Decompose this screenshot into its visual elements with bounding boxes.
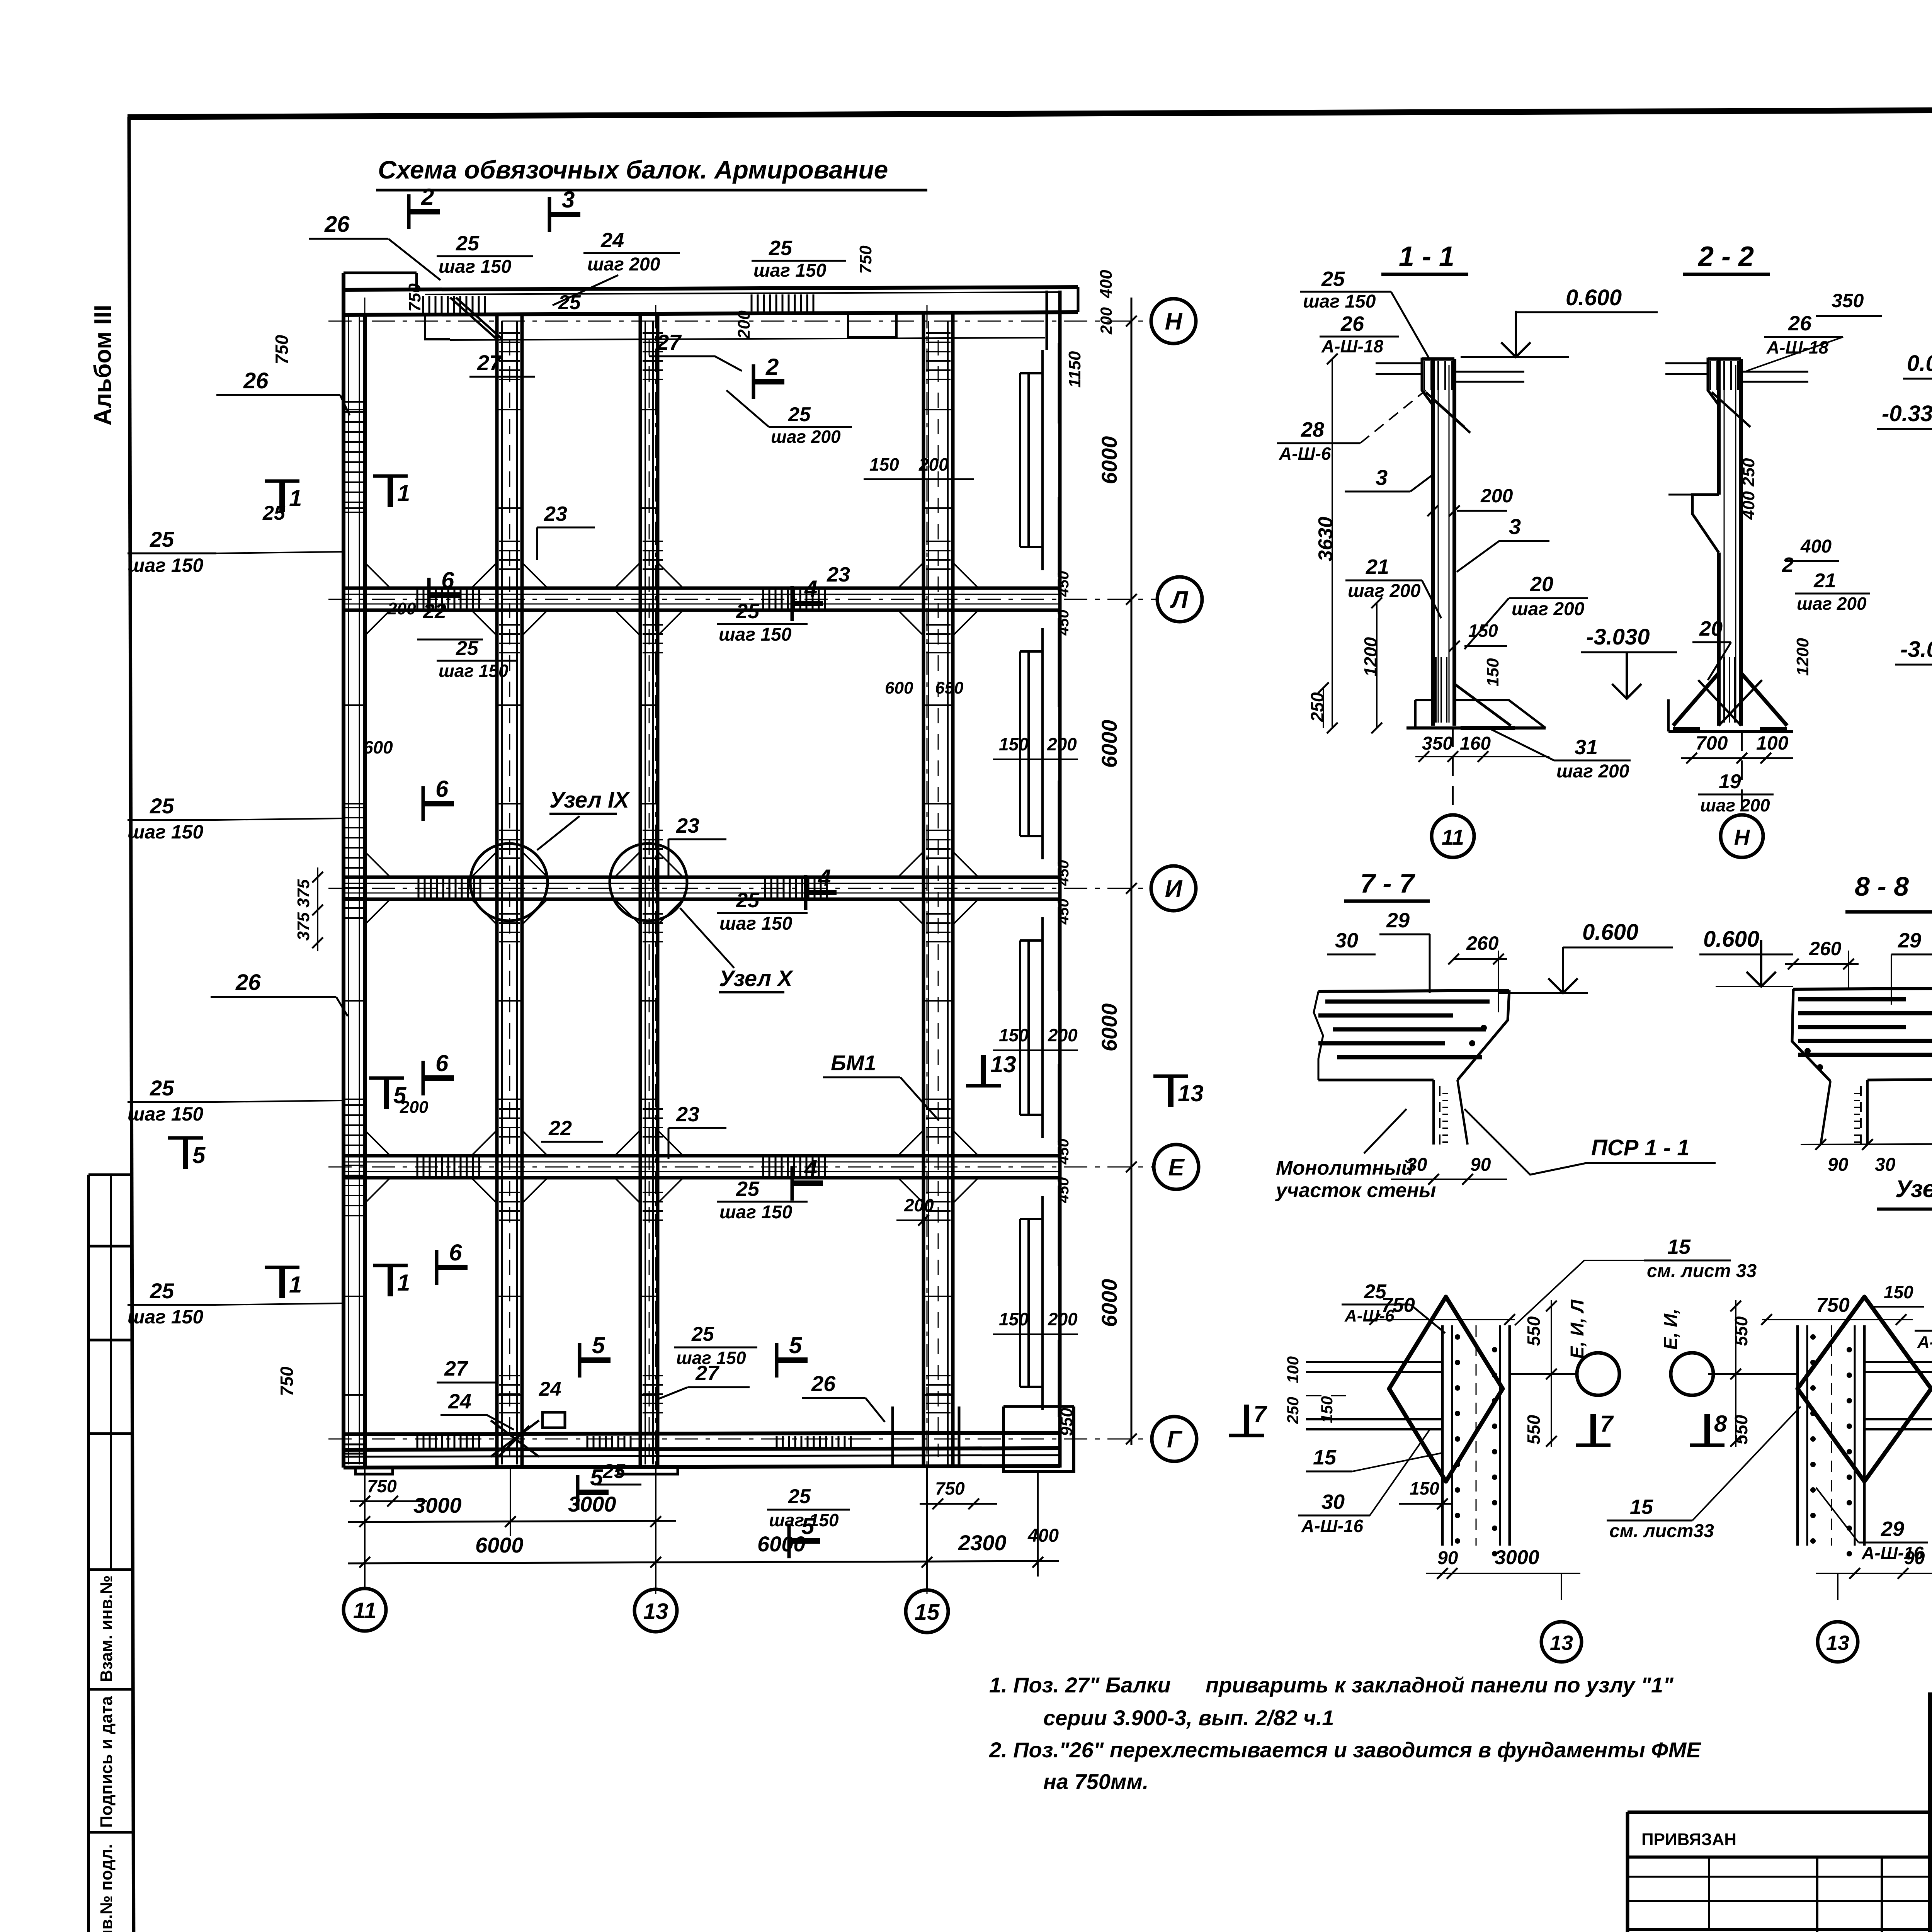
- svg-text:260: 260: [1466, 932, 1499, 954]
- svg-text:11: 11: [353, 1598, 376, 1623]
- svg-text:3630: 3630: [1315, 517, 1337, 561]
- section 2-2 axis circle N: [1741, 731, 1743, 815]
- svg-text:6000: 6000: [1097, 720, 1121, 768]
- left wall along axis 11: [342, 273, 345, 1468]
- strip mid bottom X brace: [491, 1420, 539, 1457]
- svg-text:шаг 200: шаг 200: [587, 254, 660, 275]
- svg-text:200: 200: [1048, 1025, 1078, 1045]
- row N parapet step top-left: [344, 272, 417, 274]
- section 8-8 rebar lines: [1798, 997, 1906, 1002]
- svg-text:7: 7: [1600, 1411, 1614, 1437]
- svg-text:7 - 7: 7 - 7: [1360, 868, 1415, 898]
- svg-text:6000: 6000: [757, 1532, 806, 1556]
- svg-text:ИНВ. №: ИНВ. №: [1638, 1930, 1704, 1932]
- svg-text:шаг 150: шаг 150: [439, 257, 512, 277]
- row G hatch left: [417, 1436, 479, 1448]
- wall strip 15: [922, 314, 925, 1468]
- svg-text:2 - 2: 2 - 2: [1697, 241, 1754, 272]
- svg-text:шаг 200: шаг 200: [1700, 795, 1770, 815]
- svg-text:шаг 200: шаг 200: [1348, 581, 1421, 601]
- section 8-8 corbel slab: [1793, 988, 1932, 989]
- strip mid hatch bottom: [499, 1376, 520, 1413]
- svg-text:Схема обвязочных балок. Армир: Схема обвязочных балок. Армирование: [378, 155, 888, 184]
- beam row E: [344, 1154, 1060, 1158]
- svg-text:150: 150: [1468, 621, 1498, 641]
- bottom wall buttresses: [355, 1468, 393, 1474]
- strip mid hatch below axis y3020: [499, 1192, 520, 1220]
- svg-text:27: 27: [695, 1362, 720, 1385]
- svg-text:участок стены: участок стены: [1275, 1179, 1436, 1202]
- uzel X beam lines: [1864, 1361, 1932, 1363]
- uzel IX diamond loop: [1389, 1297, 1503, 1481]
- svg-text:1: 1: [397, 480, 410, 506]
- svg-text:3: 3: [1376, 465, 1388, 490]
- svg-text:13: 13: [1826, 1631, 1849, 1655]
- svg-text:27: 27: [656, 330, 682, 354]
- uzel X circle on plan: [610, 844, 687, 921]
- svg-text:750: 750: [277, 1366, 297, 1396]
- svg-text:450: 450: [1055, 1139, 1072, 1165]
- svg-text:А-Ш-6: А-Ш-6: [1344, 1306, 1395, 1325]
- svg-text:6: 6: [435, 776, 449, 802]
- svg-text:25: 25: [691, 1323, 714, 1345]
- svg-text:200: 200: [400, 1098, 429, 1117]
- strip 15 hatch top: [926, 333, 951, 379]
- section 8-8 neck: [1821, 1081, 1830, 1145]
- strip 13 hatch above axis y1551: [643, 541, 663, 569]
- section 2-2 wall stem: [1717, 359, 1721, 495]
- svg-text:2: 2: [1782, 553, 1794, 577]
- svg-text:24: 24: [448, 1390, 471, 1413]
- svg-text:200: 200: [387, 599, 416, 618]
- svg-text:450: 450: [1055, 1177, 1072, 1204]
- strip mid hatch top: [499, 333, 520, 379]
- strip 15 hatch above axis y3020: [926, 1109, 951, 1137]
- bottom axis circle 11: [344, 1588, 386, 1631]
- svg-text:24: 24: [600, 229, 624, 252]
- svg-text:шаг 200: шаг 200: [1556, 761, 1629, 782]
- svg-text:шаг 200: шаг 200: [1512, 599, 1585, 619]
- svg-text:550: 550: [1731, 1316, 1751, 1346]
- svg-text:24: 24: [539, 1378, 561, 1400]
- svg-text:3: 3: [562, 187, 575, 213]
- wall strip mid between 11 and 13: [495, 314, 499, 1468]
- svg-text:250: 250: [1307, 692, 1327, 722]
- svg-text:3000: 3000: [413, 1493, 462, 1517]
- row E hatch right: [763, 1157, 825, 1176]
- section 7-7 rebar lines: [1325, 1000, 1490, 1004]
- svg-text:260: 260: [1809, 938, 1842, 959]
- svg-text:шаг 150: шаг 150: [719, 1202, 793, 1223]
- svg-text:приварить к закладной панел: приварить к закладной панели по узлу "1": [1206, 1673, 1674, 1697]
- svg-text:26: 26: [235, 970, 261, 995]
- svg-text:0.600: 0.600: [1703, 927, 1759, 952]
- axis line I: [328, 888, 1151, 889]
- svg-text:25: 25: [262, 502, 286, 524]
- svg-text:шаг 150: шаг 150: [128, 1103, 203, 1125]
- svg-text:950: 950: [1057, 1408, 1076, 1436]
- svg-text:серии 3.900-3, вып. 2/82 ч.1: серии 3.900-3, вып. 2/82 ч.1: [1043, 1706, 1334, 1730]
- svg-text:Узел X: Узел X: [719, 966, 794, 991]
- svg-text:А-Ш-18: А-Ш-18: [1321, 336, 1383, 356]
- svg-text:23: 23: [676, 1103, 699, 1126]
- strip 13 hatch above axis y2299: [643, 830, 663, 858]
- section 1-1 foot: [1415, 699, 1433, 701]
- svg-text:150: 150: [1884, 1282, 1913, 1302]
- svg-text:350: 350: [1832, 290, 1864, 311]
- section 1-1 bottom dims: [1415, 756, 1549, 757]
- svg-text:150: 150: [999, 734, 1029, 754]
- svg-text:А-Ш-18: А-Ш-18: [1766, 337, 1828, 357]
- sheet left border: [129, 117, 134, 1932]
- svg-text:200: 200: [1097, 307, 1115, 335]
- svg-text:А-Ш-16: А-Ш-16: [1917, 1333, 1932, 1352]
- svg-text:1: 1: [289, 485, 302, 511]
- svg-text:450: 450: [1055, 610, 1072, 636]
- uzel IX axis circle: [1510, 1373, 1576, 1375]
- extension lines to bottom circles: [364, 1468, 366, 1588]
- svg-text:750: 750: [367, 1476, 397, 1496]
- section 2-2 foot X spread: [1673, 673, 1719, 726]
- svg-text:450: 450: [1055, 899, 1072, 925]
- row N hatch right: [752, 294, 813, 311]
- title block outer: [1930, 1695, 1932, 1932]
- vertical axis 11: [364, 298, 366, 1594]
- strip 13 hatch top: [643, 333, 663, 379]
- svg-text:25: 25: [150, 527, 174, 551]
- interior labels: [429, 592, 460, 598]
- svg-text:Н: Н: [1734, 825, 1750, 849]
- svg-text:150: 150: [1410, 1478, 1439, 1498]
- axis line G: [328, 1439, 1151, 1440]
- strip 13 hatch above axis y3020: [643, 1109, 663, 1137]
- svg-text:550: 550: [1524, 1316, 1544, 1346]
- svg-text:5: 5: [592, 1332, 605, 1358]
- section 1-1 wall stem: [1431, 359, 1435, 726]
- svg-text:25: 25: [736, 600, 760, 623]
- svg-text:2300: 2300: [958, 1531, 1007, 1555]
- axis line N: [328, 321, 1151, 322]
- svg-text:шаг 150: шаг 150: [128, 554, 203, 576]
- svg-text:1150: 1150: [1065, 351, 1084, 388]
- svg-text:-0.330: -0.330: [1882, 401, 1932, 426]
- svg-text:Узел IX: Узел IX: [549, 787, 630, 813]
- strip mid hatch below axis y2299: [499, 914, 520, 942]
- svg-text:23: 23: [676, 814, 699, 837]
- beam row I: [344, 876, 1060, 879]
- svg-text:750: 750: [856, 245, 875, 274]
- uzel IX dots: [1455, 1334, 1460, 1340]
- svg-text:25: 25: [150, 1279, 174, 1303]
- left stamp column frame: [87, 1175, 90, 1932]
- svg-text:25: 25: [736, 889, 760, 912]
- strip 15 hatch above axis y2299: [926, 830, 951, 858]
- svg-text:15: 15: [915, 1600, 940, 1625]
- svg-text:90: 90: [1470, 1155, 1491, 1175]
- svg-text:25: 25: [1364, 1281, 1387, 1303]
- svg-text:26: 26: [1788, 312, 1812, 335]
- section 7-7 taper dots: [1469, 1040, 1475, 1046]
- svg-text:шаг 200: шаг 200: [1797, 594, 1867, 614]
- section 2-2 head: [1708, 357, 1741, 361]
- svg-text:6000: 6000: [1097, 1003, 1121, 1052]
- svg-text:750: 750: [935, 1478, 965, 1498]
- svg-text:30: 30: [1321, 1490, 1345, 1514]
- svg-text:шаг 150: шаг 150: [439, 661, 509, 681]
- svg-text:30: 30: [1335, 929, 1358, 952]
- svg-text:21: 21: [1366, 555, 1389, 578]
- svg-text:26: 26: [1340, 312, 1364, 335]
- svg-text:650: 650: [935, 679, 964, 697]
- section 8-8 bottom dim line: [1801, 1144, 1932, 1145]
- svg-text:200: 200: [904, 1195, 934, 1215]
- svg-text:Узел X: Узел X: [1895, 1176, 1932, 1202]
- svg-text:6000: 6000: [1097, 436, 1121, 485]
- row G hatch mid: [587, 1436, 631, 1448]
- uzel IX bottom circle 13: [1561, 1573, 1562, 1600]
- svg-text:550: 550: [1731, 1415, 1751, 1444]
- section 1-1 head diagonal: [1426, 392, 1464, 427]
- row L hatch left: [417, 589, 479, 609]
- svg-text:200: 200: [1048, 1309, 1078, 1329]
- svg-text:700: 700: [1696, 732, 1728, 754]
- strip 15 hatch below axis y2299: [926, 914, 951, 942]
- left wall rebar hatch 3: [345, 1105, 363, 1216]
- svg-text:2. Поз."26" перехлестывается: 2. Поз."26" перехлестывается и заводится…: [989, 1738, 1701, 1762]
- svg-text:400: 400: [1097, 270, 1116, 299]
- svg-text:200: 200: [735, 310, 753, 339]
- svg-text:30: 30: [1875, 1155, 1896, 1175]
- strip 15 hatch above axis y1551: [926, 541, 951, 569]
- uzel X bottom circle 13: [1837, 1573, 1838, 1600]
- svg-text:13: 13: [1550, 1631, 1573, 1655]
- svg-text:150: 150: [1483, 658, 1502, 687]
- svg-text:5: 5: [192, 1142, 206, 1168]
- wall strip joint ticks: [344, 410, 953, 1395]
- svg-text:1200: 1200: [1361, 637, 1381, 677]
- svg-text:0.000: 0.000: [1907, 351, 1932, 376]
- svg-text:160: 160: [1460, 733, 1491, 754]
- svg-text:см. лист 33: см. лист 33: [1647, 1261, 1757, 1281]
- section 7-7 corbel slab: [1318, 990, 1509, 992]
- uzel X detail wall strip: [1796, 1325, 1799, 1546]
- svg-text:Л: Л: [1170, 587, 1189, 613]
- svg-text:шаг 150: шаг 150: [128, 821, 203, 843]
- left wall rebar hatch 2: [345, 808, 363, 918]
- embedded plate square: [543, 1412, 565, 1428]
- svg-text:25: 25: [602, 1460, 626, 1483]
- svg-text:4: 4: [804, 1155, 817, 1181]
- svg-text:28: 28: [1301, 418, 1324, 441]
- title block signature rows: [1930, 1715, 1932, 1718]
- svg-text:Е, И, Л: Е, И, Л: [1567, 1299, 1588, 1359]
- svg-text:8: 8: [1714, 1411, 1727, 1437]
- uzel IX beam lines: [1306, 1361, 1442, 1363]
- row N hatch left: [423, 296, 485, 314]
- sheet top border: [128, 107, 1932, 117]
- svg-text:450: 450: [1055, 571, 1072, 597]
- svg-text:23: 23: [544, 502, 567, 526]
- svg-text:20: 20: [1530, 573, 1553, 596]
- right vertical dimension line 6000s: [1131, 298, 1133, 1445]
- row L hatch right: [763, 589, 825, 609]
- attachment table: [1628, 1811, 1930, 1814]
- uzel IX detail wall strip: [1441, 1325, 1444, 1546]
- strip mid hatch above axis y3020: [499, 1109, 520, 1137]
- strip 13 hatch below axis y2299: [643, 914, 663, 942]
- strip mid hatch above axis y1551: [499, 541, 520, 569]
- svg-text:29: 29: [1386, 909, 1410, 932]
- svg-text:200: 200: [1047, 734, 1077, 754]
- corner chamfers: [365, 563, 978, 1203]
- bottom axis circle 13: [634, 1589, 677, 1632]
- svg-text:8 - 8: 8 - 8: [1855, 871, 1909, 901]
- svg-text:150: 150: [1318, 1396, 1336, 1423]
- strip 13 hatch below axis y3020: [643, 1192, 663, 1220]
- svg-text:Е: Е: [1168, 1154, 1185, 1181]
- axis line E: [328, 1167, 1153, 1168]
- strip mid hatch above axis y2299: [499, 830, 520, 858]
- svg-text:Е, И,: Е, И,: [1661, 1309, 1681, 1350]
- right chamber walls per bay: [1019, 373, 1021, 547]
- svg-text:19: 19: [1719, 770, 1741, 793]
- svg-text:на 750мм.: на 750мм.: [1043, 1769, 1148, 1794]
- svg-text:22: 22: [423, 600, 446, 623]
- svg-text:29: 29: [1898, 929, 1921, 952]
- svg-text:13: 13: [643, 1599, 668, 1624]
- svg-text:шаг 150: шаг 150: [1303, 291, 1376, 312]
- wall strip 13: [639, 314, 642, 1468]
- svg-text:1: 1: [397, 1270, 410, 1296]
- svg-text:0.600: 0.600: [1566, 285, 1622, 310]
- svg-text:90: 90: [1904, 1548, 1925, 1568]
- svg-text:600: 600: [885, 679, 913, 697]
- svg-text:6: 6: [449, 1240, 462, 1265]
- beam row L: [344, 587, 1060, 590]
- svg-text:3: 3: [1509, 514, 1521, 539]
- svg-text:Инв.№ подл.: Инв.№ подл.: [97, 1844, 116, 1932]
- svg-text:Монолитный: Монолитный: [1276, 1157, 1413, 1179]
- svg-text:-3.030: -3.030: [1586, 624, 1650, 650]
- svg-text:ПРИВЯЗАН: ПРИВЯЗАН: [1641, 1830, 1736, 1849]
- svg-text:4: 4: [818, 865, 831, 891]
- axis circle G: [1152, 1417, 1197, 1461]
- svg-text:-3.030: -3.030: [1900, 637, 1932, 662]
- bottom axis circle 15: [906, 1590, 948, 1633]
- svg-text:100: 100: [1284, 1356, 1302, 1383]
- bottom dimension line 3000+3000: [348, 1521, 676, 1522]
- svg-text:6000: 6000: [1097, 1279, 1121, 1327]
- uzel X diamond loop: [1798, 1297, 1931, 1481]
- axis line L: [328, 599, 1156, 600]
- svg-text:25: 25: [788, 403, 811, 426]
- row I hatch left: [418, 878, 480, 898]
- svg-text:750: 750: [1816, 1294, 1850, 1316]
- svg-text:2: 2: [421, 184, 434, 210]
- svg-text:15: 15: [1313, 1446, 1337, 1469]
- svg-text:БМ1: БМ1: [831, 1051, 876, 1075]
- svg-text:0.600: 0.600: [1582, 920, 1638, 945]
- row G hatch right: [777, 1436, 851, 1448]
- svg-text:см. лист33: см. лист33: [1609, 1521, 1714, 1541]
- svg-text:21: 21: [1813, 570, 1836, 592]
- svg-text:150: 150: [999, 1309, 1029, 1329]
- svg-text:150: 150: [869, 454, 899, 474]
- svg-text:Альбом III: Альбом III: [90, 305, 116, 425]
- svg-text:27: 27: [444, 1357, 469, 1380]
- svg-text:Подпись и дата: Подпись и дата: [97, 1696, 116, 1828]
- svg-text:2: 2: [765, 354, 779, 380]
- svg-text:400 250: 400 250: [1739, 458, 1758, 520]
- row I hatch right: [765, 878, 827, 898]
- svg-text:4: 4: [804, 576, 817, 602]
- svg-text:23: 23: [827, 563, 850, 586]
- svg-text:5: 5: [801, 1513, 815, 1539]
- svg-text:26: 26: [243, 368, 269, 393]
- uzel X dots: [1810, 1334, 1816, 1340]
- svg-text:15: 15: [1630, 1495, 1653, 1519]
- svg-text:25: 25: [558, 291, 581, 314]
- SE corner pylon: [1003, 1406, 1074, 1471]
- uzel X top dim 750: [1762, 1319, 1913, 1320]
- svg-text:26: 26: [811, 1371, 836, 1396]
- svg-text:шаг 150: шаг 150: [128, 1306, 203, 1328]
- axis circle L: [1157, 577, 1202, 622]
- left margin section marks: [279, 481, 285, 512]
- svg-text:1. Поз. 27" Балки: 1. Поз. 27" Балки: [989, 1673, 1171, 1697]
- svg-text:750: 750: [405, 283, 424, 312]
- svg-text:3000: 3000: [568, 1492, 616, 1516]
- strip 15 hatch bottom: [926, 1376, 951, 1413]
- svg-text:7: 7: [1253, 1401, 1267, 1427]
- svg-text:Взам. инв.№: Взам. инв.№: [97, 1575, 116, 1682]
- section 1-1 axis to circle 11: [1452, 728, 1454, 815]
- svg-text:6: 6: [435, 1050, 449, 1076]
- axis circle E: [1154, 1145, 1199, 1189]
- svg-text:1200: 1200: [1793, 638, 1812, 676]
- svg-text:25: 25: [1321, 267, 1345, 291]
- row E hatch left: [417, 1157, 479, 1176]
- axis circle I: [1151, 866, 1196, 911]
- svg-text:И: И: [1165, 876, 1183, 902]
- svg-text:Н: Н: [1165, 308, 1183, 335]
- strip 13 hatch bottom: [643, 1376, 663, 1413]
- svg-text:90: 90: [1437, 1548, 1458, 1568]
- axis circle N: [1151, 299, 1196, 344]
- svg-text:100: 100: [1756, 732, 1789, 754]
- uzel IX top dim 750: [1364, 1319, 1515, 1320]
- section 7-7 neck: [1432, 1080, 1435, 1145]
- svg-text:200: 200: [1480, 485, 1513, 507]
- row N diag bracket: [450, 298, 497, 339]
- line under top band: [450, 338, 1045, 340]
- bottom wall row G: [344, 1433, 1060, 1434]
- uzel X axis circle: [1708, 1373, 1798, 1375]
- svg-text:5: 5: [789, 1332, 803, 1358]
- left wall rebar hatch 1: [345, 402, 363, 512]
- svg-text:27: 27: [477, 350, 502, 375]
- svg-text:15: 15: [1667, 1235, 1691, 1259]
- svg-text:20: 20: [1699, 617, 1723, 640]
- svg-text:шаг 150: шаг 150: [753, 260, 827, 281]
- strip 13 hatch below axis y1551: [643, 625, 663, 653]
- svg-text:375 375: 375 375: [294, 879, 313, 941]
- top wall row N: [344, 287, 1078, 290]
- svg-text:25: 25: [456, 637, 479, 660]
- svg-text:150: 150: [999, 1025, 1029, 1045]
- svg-text:Г: Г: [1167, 1426, 1183, 1453]
- svg-text:25: 25: [736, 1177, 760, 1201]
